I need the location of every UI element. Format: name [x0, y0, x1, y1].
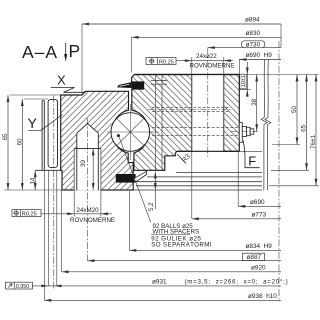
dimension ø690 H9 top	[239, 52, 281, 61]
svg-text:5,2: 5,2	[148, 202, 155, 211]
svg-text:ROVNOMERNE: ROVNOMERNE	[190, 62, 235, 69]
dimension 24xM20 with frame R0,25	[12, 207, 115, 224]
grease passage (hidden lines)	[148, 107, 239, 135]
dimension 5,2	[148, 172, 157, 212]
svg-text:ø894: ø894	[245, 17, 260, 24]
svg-text:10±1: 10±1	[241, 75, 247, 87]
svg-text:A–A: A–A	[22, 42, 58, 62]
svg-text:38: 38	[251, 98, 258, 105]
gear ring (left/outer ring) hatched section	[61, 91, 134, 190]
svg-text:24xø22: 24xø22	[196, 53, 217, 60]
dimension ø931 gear data + runout frame 0,350	[6, 278, 289, 290]
dimension ø773	[192, 211, 281, 220]
svg-text:R0,25: R0,25	[22, 212, 37, 218]
gear teeth section (left edge)	[36, 99, 63, 170]
dimension ø887 boxed	[88, 253, 282, 262]
break lines near axis	[261, 60, 271, 191]
dimension ø920	[62, 264, 282, 273]
svg-text:ROVNOMERNE: ROVNOMERNE	[70, 217, 115, 224]
svg-text:50: 50	[291, 105, 298, 113]
svg-text:24xM20: 24xM20	[77, 207, 100, 214]
dimension ø830	[132, 30, 281, 39]
detail F box with leader	[243, 141, 259, 169]
dimension ø690 bottom	[238, 199, 281, 208]
detail X label with break marks	[51, 72, 86, 92]
svg-text:30: 30	[80, 160, 87, 167]
dimension ø730 boxed	[208, 41, 281, 49]
svg-text:ø938 h10: ø938 h10	[248, 293, 277, 300]
svg-text:(m=3,5; z=266; x=0; a=20°;): (m=3,5; z=266; x=0; a=20°;)	[185, 278, 289, 285]
svg-text:60: 60	[17, 138, 24, 146]
grease fitting	[231, 123, 259, 143]
svg-text:ø773: ø773	[252, 211, 267, 218]
centerlines	[54, 41, 279, 302]
balls note with leader dot	[117, 134, 212, 249]
svg-text:65: 65	[2, 133, 9, 141]
far-side silhouette lines (bottom band)	[62, 173, 262, 190]
svg-text:ø730: ø730	[246, 41, 261, 48]
dimension 65 left	[2, 95, 9, 190]
svg-text:ø887: ø887	[247, 254, 262, 261]
svg-text:ø931: ø931	[152, 278, 167, 285]
tapped hole M20 in gear ring	[74, 123, 101, 190]
svg-text:ø920: ø920	[251, 264, 266, 271]
svg-text:P: P	[69, 41, 81, 61]
svg-text:14: 14	[29, 177, 36, 184]
svg-text:65: 65	[301, 124, 308, 132]
dimension 38	[251, 75, 258, 132]
svg-text:ø834 H9: ø834 H9	[246, 243, 273, 250]
svg-text:X: X	[57, 72, 66, 87]
svg-text:F: F	[248, 154, 256, 169]
dimension 50 right	[291, 75, 298, 145]
load direction P with arrow	[64, 41, 80, 62]
plug seam lines + taper pin in inner ring	[151, 75, 167, 171]
dimension 30 thread depth	[80, 148, 95, 190]
svg-text:ø690: ø690	[250, 199, 265, 206]
svg-text:0,350: 0,350	[16, 284, 29, 290]
svg-text:ø830: ø830	[246, 30, 261, 37]
inner ring (right) hatched section	[132, 75, 240, 171]
ball	[107, 104, 159, 160]
dimension 24xø22 with frame R0,25	[146, 53, 235, 69]
dimension ø894	[82, 17, 281, 26]
svg-text:76±1: 76±1	[310, 134, 317, 149]
dimension ø938 h10	[44, 293, 281, 302]
bottom seal	[116, 171, 147, 182]
fillet label R3	[177, 153, 192, 164]
detail Y label with leader	[28, 115, 63, 132]
svg-text:Y: Y	[28, 115, 38, 131]
dimension 60 left	[17, 99, 24, 190]
svg-text:SO SEPARÁTORMI: SO SEPARÁTORMI	[151, 242, 212, 249]
dimension 76±1 right	[310, 75, 317, 186]
dimension 65 right	[301, 75, 308, 171]
dimension 14 left	[29, 170, 36, 190]
bolt hole ø22 in inner ring	[135, 74, 240, 152]
svg-text:ø690 H9: ø690 H9	[246, 52, 273, 59]
dimension ø834 H9	[129, 243, 281, 252]
svg-text:R0,25: R0,25	[159, 60, 174, 66]
dimension 10±1 boxed	[240, 62, 249, 97]
top seal	[117, 82, 144, 89]
